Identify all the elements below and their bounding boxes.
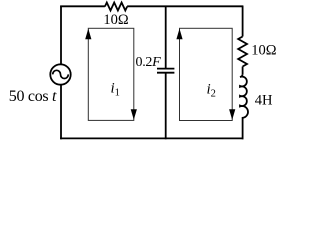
wire: top segment from resistor R1 to top-right corner [127,5,243,7]
wire: left branch upper (source top to top-left corner) [60,6,62,64]
resistor R2 10ohm (right, vertical zigzag) [238,37,247,67]
resistor R1 10ohm (top, horizontal zigzag) [105,3,127,11]
wire: middle branch upper (top wire down to capacitor C1) [165,6,167,69]
mesh current loop i1 rectangle [88,28,134,120]
wire: bottom segment (bottom-right to bottom-left corner) [60,137,243,139]
svg-text:10Ω: 10Ω [251,42,277,58]
wire: middle branch lower (capacitor C1 to bottom wire) [165,73,167,140]
AC voltage source V1 circle [50,64,70,84]
wire: right branch between resistor R2 and inductor L1 [242,67,244,75]
mesh current loop i1 down arrowhead [131,109,137,120]
wire: right branch lower (inductor L1 to bottom-right corner) [242,117,244,139]
wire: top segment from top-left corner to resistor R1 [60,5,105,7]
svg-text:50 cos t: 50 cos t [9,88,57,105]
mesh current loop i2 down arrowhead [229,109,235,120]
svg-text:0.2F: 0.2F [136,55,162,70]
mesh current loop i2 rectangle [180,28,233,120]
mesh current loop i2 up arrowhead [176,29,182,40]
mesh current loop i1 up arrowhead [85,29,91,40]
inductor L1 4H (right, coil) [240,74,248,118]
AC voltage source V1 sine symbol [53,70,69,78]
wire: left branch lower (bottom-left corner to source bottom) [60,85,62,140]
wire: right branch upper (top-right corner to resistor R2) [242,6,244,37]
svg-text:10Ω: 10Ω [103,12,129,28]
svg-text:4H: 4H [255,93,273,109]
capacitor C1 0.2F plates [157,69,174,73]
